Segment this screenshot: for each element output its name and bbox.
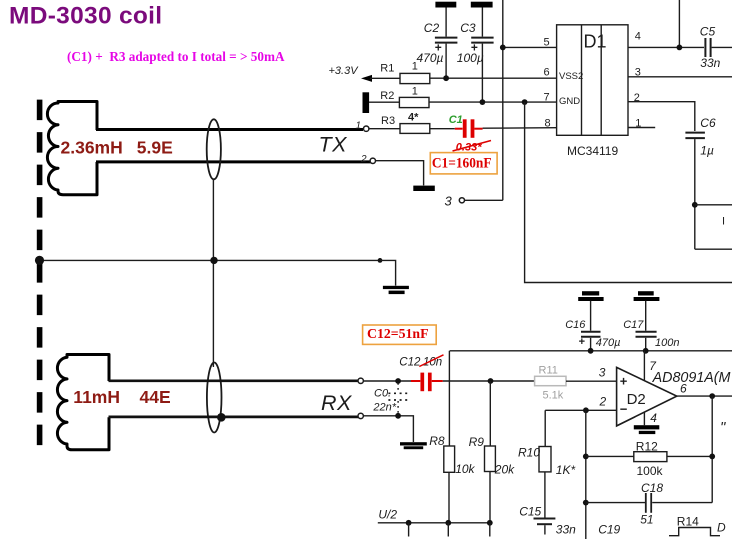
svg-text:+: +	[579, 336, 585, 348]
power bar C3	[471, 2, 493, 8]
svg-text:C16: C16	[565, 319, 586, 331]
node on dashed line	[35, 256, 44, 265]
svg-text:I: I	[722, 216, 725, 228]
node C0 top	[395, 378, 401, 384]
svg-text:GND: GND	[559, 96, 580, 107]
svg-text:MD-3030 coil: MD-3030 coil	[9, 3, 162, 30]
svg-text:R8: R8	[429, 434, 445, 448]
pin 3 wire	[628, 76, 732, 78]
node R2/GND rail	[522, 99, 528, 105]
wire terminal2 to ground	[375, 161, 423, 186]
svg-text:AD8091A(M: AD8091A(M	[652, 370, 731, 386]
svg-text:C15: C15	[519, 504, 541, 518]
ground at bus	[383, 286, 409, 289]
wire TX top thick	[96, 128, 363, 131]
node C2/R1	[443, 75, 449, 81]
inductor L1 TX coil 2.36mH	[47, 102, 97, 195]
op-amp D2	[617, 367, 677, 426]
svg-text:R9: R9	[469, 435, 485, 449]
node C0 bottom	[395, 413, 401, 419]
resistor R9	[489, 381, 491, 446]
terminal RX top	[358, 378, 363, 383]
svg-text:22n*: 22n*	[372, 402, 396, 414]
svg-text:33n: 33n	[556, 523, 576, 537]
resistor R10	[544, 410, 546, 446]
svg-text:R3: R3	[381, 115, 395, 127]
arrow to +3.3V	[361, 75, 372, 82]
svg-text:R2: R2	[380, 90, 394, 102]
svg-text:C18: C18	[641, 481, 663, 495]
node cable crossing	[210, 257, 217, 264]
svg-text:VSS2: VSS2	[559, 71, 583, 82]
pin 4 wire	[628, 46, 704, 48]
wire pin5 vertical from top	[502, 0, 504, 200]
capacitor C2	[445, 8, 447, 37]
svg-text:100k: 100k	[637, 464, 664, 478]
wire U/2 bus	[378, 522, 491, 524]
svg-text:(C1) + R3 adapted to I total: (C1) + R3 adapted to I total = > 50mA	[67, 50, 285, 65]
svg-text:D1: D1	[584, 32, 607, 52]
svg-text:+3.3V: +3.3V	[329, 65, 360, 77]
svg-text:2: 2	[599, 394, 607, 408]
svg-text:1: 1	[356, 120, 362, 131]
svg-text:44E: 44E	[140, 387, 171, 407]
ground at TX2	[413, 186, 435, 191]
svg-text:D2: D2	[627, 391, 646, 408]
resistor R14 partial	[669, 528, 720, 536]
note box C1=160nF	[430, 153, 497, 174]
svg-text:2: 2	[360, 154, 367, 165]
svg-text:1: 1	[412, 61, 418, 73]
resistor R12	[586, 455, 634, 457]
svg-text:5: 5	[544, 37, 550, 49]
svg-text:2: 2	[634, 92, 640, 104]
svg-text:D: D	[717, 521, 726, 535]
svg-text:1µ: 1µ	[700, 144, 714, 158]
inductor L2 RX coil 11mH	[57, 355, 109, 450]
svg-text:7: 7	[544, 92, 550, 104]
wire pin4 stub	[643, 412, 645, 426]
svg-text:R14: R14	[677, 514, 699, 528]
svg-text:3: 3	[445, 193, 453, 208]
svg-text:3: 3	[635, 67, 641, 79]
svg-text:C1=160nF: C1=160nF	[432, 156, 492, 172]
svg-text:1K*: 1K*	[556, 463, 576, 477]
svg-text:100µ: 100µ	[457, 51, 484, 65]
resistor R3	[369, 128, 400, 130]
wire supply rail 350	[450, 350, 732, 352]
capacitor C12 (red)	[411, 380, 420, 382]
svg-text:C2: C2	[424, 21, 440, 35]
svg-text:5.9E: 5.9E	[137, 138, 173, 158]
pin 1 wire	[628, 127, 655, 129]
svg-text:10n: 10n	[423, 356, 442, 368]
svg-text:+: +	[620, 374, 628, 389]
svg-text:33n: 33n	[700, 56, 720, 70]
note box C12=51nF	[363, 325, 437, 344]
node bus right end	[378, 258, 383, 263]
capacitor C5	[704, 38, 706, 57]
wire feedback vertical	[585, 410, 587, 539]
terminal RX bottom	[358, 413, 363, 418]
svg-text:R10: R10	[518, 446, 540, 460]
svg-text:1: 1	[412, 86, 418, 98]
svg-text:470µ: 470µ	[596, 337, 621, 349]
wire pin7 stub	[643, 351, 645, 381]
svg-text:": "	[720, 419, 726, 436]
terminal bar at R2	[363, 92, 370, 113]
wire RX bottom	[109, 416, 359, 419]
svg-text:R1: R1	[380, 62, 394, 74]
pin 2 wire	[628, 102, 695, 131]
svg-text:C3: C3	[460, 21, 476, 35]
resistor R8	[448, 351, 450, 446]
capacitor C15	[534, 518, 556, 520]
wire bus to ground	[380, 260, 396, 285]
capacitor C0 dotted	[397, 383, 399, 392]
capacitor C18	[586, 502, 645, 504]
node pin5	[500, 45, 506, 51]
power bars C17	[638, 291, 654, 295]
svg-text:11mH: 11mH	[73, 387, 120, 407]
node R9 top	[488, 378, 494, 384]
svg-text:R12: R12	[636, 440, 658, 454]
wire GND rail from pin7 node	[525, 102, 732, 282]
svg-text:6: 6	[544, 67, 550, 79]
svg-text:470µ: 470µ	[417, 51, 444, 65]
node cable/RX	[217, 413, 226, 422]
svg-text:3: 3	[599, 365, 606, 379]
svg-text:51: 51	[640, 512, 653, 526]
svg-text:U/2: U/2	[378, 507, 397, 521]
dashed shield line	[37, 100, 43, 447]
wire main ground bus	[40, 259, 381, 261]
svg-text:C19: C19	[598, 522, 620, 536]
svg-text:RX: RX	[321, 391, 353, 415]
svg-text:C0.: C0.	[374, 387, 391, 399]
wire vertical above pin4 node	[678, 0, 680, 47]
svg-text:C12=51nF: C12=51nF	[367, 327, 429, 342]
svg-text:C5: C5	[700, 25, 716, 39]
svg-text:10k: 10k	[455, 462, 475, 476]
svg-text:100n: 100n	[655, 337, 679, 349]
svg-text:C1: C1	[449, 114, 463, 126]
ground at op-amp	[634, 425, 660, 429]
cable ellipse RX	[207, 363, 222, 433]
wire inverting input	[545, 409, 616, 411]
wire TX bottom thick	[96, 160, 371, 163]
capacitor C16	[590, 301, 592, 331]
capacitor C1 (red)	[455, 128, 463, 130]
svg-text:5.1k: 5.1k	[543, 390, 564, 402]
svg-text:C6: C6	[700, 116, 716, 130]
resistor R1	[370, 77, 400, 79]
capacitor C17	[645, 301, 647, 331]
capacitor C6	[685, 132, 705, 134]
svg-text:2.36mH: 2.36mH	[61, 138, 123, 158]
ground at RX bottom	[400, 442, 427, 445]
svg-text:4*: 4*	[408, 112, 419, 124]
IC D1 MC34119	[557, 25, 628, 136]
svg-text:4: 4	[635, 31, 641, 43]
resistor R11 (grey)	[535, 376, 566, 385]
power bars C16	[582, 291, 599, 295]
wire cable shield vertical	[212, 179, 214, 367]
svg-text:C17: C17	[623, 319, 644, 331]
svg-text:C12: C12	[399, 356, 421, 368]
resistor R2	[369, 101, 399, 103]
svg-text:MC34119: MC34119	[567, 144, 618, 158]
cable ellipse TX	[207, 119, 221, 179]
node C3/R2	[480, 99, 486, 105]
power bar C2	[435, 2, 456, 8]
svg-text:R11: R11	[539, 365, 558, 377]
node C6 bottom	[692, 202, 698, 208]
svg-text:20k: 20k	[494, 463, 515, 477]
wire output net	[677, 395, 732, 397]
capacitor C3	[481, 8, 483, 37]
svg-text:8: 8	[545, 117, 551, 129]
wire RX top	[109, 379, 359, 382]
svg-text:TX: TX	[319, 133, 349, 157]
svg-text:4: 4	[650, 411, 657, 425]
svg-text:1: 1	[635, 117, 641, 129]
